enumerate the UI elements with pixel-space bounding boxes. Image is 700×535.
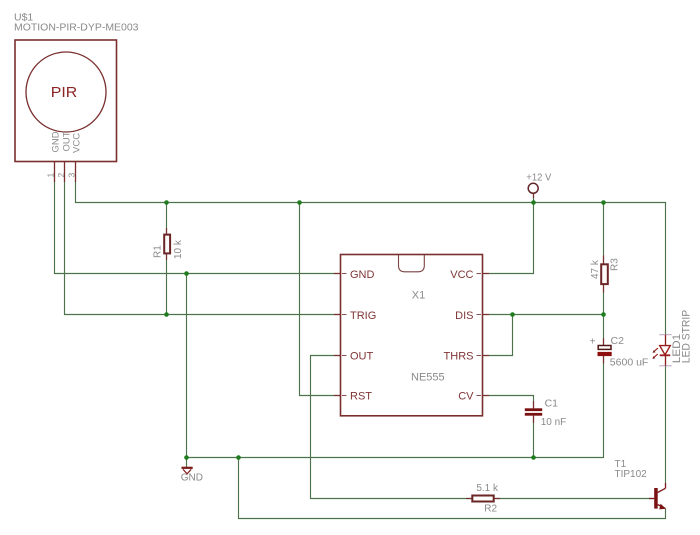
svg-text:5600 uF: 5600 uF (610, 356, 649, 368)
T1 emitter arrow (659, 504, 666, 510)
R3 top pin stub (603, 256, 605, 265)
wire DIS to R3 bottom (489, 314, 604, 316)
wire top +12V rail (76, 182, 666, 335)
wire OUT to R2 (311, 356, 472, 499)
wire R1 bottom (166, 254, 168, 314)
svg-text:TIP102: TIP102 (615, 469, 648, 480)
555 left pin stubs (334, 274, 341, 396)
X1 pin GND stub (334, 273, 341, 275)
node RST / rail (297, 200, 302, 205)
node junction dots (164, 200, 606, 460)
svg-text:5.1 k: 5.1 k (476, 483, 499, 494)
wire GND net vertical (186, 274, 188, 458)
R3 body (601, 264, 608, 284)
wire +12V stub (533, 193, 535, 203)
wire CV to C1 (489, 396, 534, 409)
LED1 anode pin tick (659, 334, 672, 336)
svg-text:+: + (590, 336, 596, 347)
R1 body (164, 235, 170, 254)
LED1 (652, 310, 692, 366)
T1 emitter slant (658, 505, 666, 509)
X1 pin OUT stub (334, 355, 341, 357)
C1 top plate (525, 408, 542, 411)
R2 right pin stub (495, 498, 500, 500)
svg-text:LED STRIP: LED STRIP (681, 310, 693, 364)
555 pin names (350, 269, 474, 403)
node ground / emitter branch (236, 455, 241, 460)
PIR pin names (51, 131, 83, 153)
svg-text:OUT: OUT (350, 351, 374, 363)
svg-text:3: 3 (67, 173, 77, 178)
svg-text:VCC: VCC (450, 269, 473, 281)
LED1 cathode stub (665, 355, 667, 366)
wire THRS to DIS (489, 315, 513, 356)
svg-text:X1: X1 (412, 290, 425, 302)
svg-text:VCC: VCC (72, 133, 83, 153)
svg-text:47 k: 47 k (590, 259, 601, 279)
svg-text:C1: C1 (545, 398, 559, 410)
IC X1 NE555 (341, 255, 483, 416)
R2 left pin stub (466, 498, 471, 500)
svg-text:C2: C2 (611, 335, 625, 347)
wire ground to emitter (239, 458, 666, 519)
X1 notch (399, 255, 425, 272)
+12V pin stub (533, 193, 535, 198)
svg-text:R2: R2 (484, 503, 497, 514)
node ground / GND symbol (184, 455, 189, 460)
node C1 bottom / ground (531, 455, 536, 460)
ground symbol GND (181, 468, 203, 484)
LED1 cathode bar (660, 354, 671, 356)
wire VCC (489, 203, 534, 274)
capacitor C1 (525, 398, 566, 428)
resistor R3 (590, 256, 621, 293)
node +12V / rail (531, 200, 536, 205)
LED1 cathode pin tick (659, 365, 672, 367)
X1 pin DIS stub (483, 314, 490, 316)
wire RST from rail (300, 203, 335, 396)
wire C2 bottom to ground wire (187, 356, 604, 458)
C2 top pin stub (603, 338, 605, 346)
X1 body (341, 255, 483, 416)
PIR pin 1 stub (54, 162, 56, 183)
LED1 emission arrow 2 (654, 354, 658, 357)
wire R2 to base (495, 498, 655, 500)
PIR pin numbers (46, 173, 77, 178)
C1 bottom pin stub (533, 416, 535, 423)
node GND net / 555 GND wire (184, 271, 189, 276)
wire PIR pin1 GND down (55, 182, 335, 274)
wire R1 top (166, 203, 168, 234)
PIR sensor U$1 (15, 40, 117, 162)
wire C1 bottom (533, 416, 535, 458)
svg-text:1: 1 (46, 173, 56, 178)
svg-text:CV: CV (458, 391, 474, 403)
PIR pin 3 stub (75, 162, 77, 183)
svg-text:GND: GND (51, 131, 62, 152)
svg-text:TRIG: TRIG (350, 310, 376, 322)
LED1 triangle (660, 346, 671, 355)
C2 positive plate (598, 346, 611, 350)
PIR pin 2 stub (64, 162, 66, 183)
svg-text:+12 V: +12 V (526, 171, 551, 183)
svg-text:GND: GND (181, 473, 203, 484)
svg-text:PIR: PIR (51, 84, 78, 101)
node R3 / rail (601, 200, 606, 205)
capacitor C2 (polarized) (590, 335, 649, 369)
X1 pin CV stub (483, 395, 490, 397)
supply +12V (526, 171, 551, 198)
R2 body (472, 496, 493, 502)
C1 top pin stub (533, 401, 535, 408)
wire (55, 182, 666, 519)
PIR body outline (15, 40, 117, 162)
ground V (183, 469, 191, 474)
wire R3 bottom to C2 (603, 285, 605, 345)
R3 bottom pin stub (603, 284, 605, 292)
T1 collector slant (658, 488, 666, 492)
node R1 bottom / TRIG (164, 312, 169, 317)
ground bar (182, 467, 193, 469)
wire GND symbol stub (186, 458, 188, 468)
wire PIR pin2 OUT down to TRIG (65, 182, 335, 315)
svg-text:2: 2 (56, 173, 66, 178)
wire R3 top (603, 203, 605, 264)
svg-text:10 k: 10 k (173, 239, 184, 259)
R1 bottom pin stub (166, 254, 168, 260)
C1 bottom plate (525, 413, 542, 416)
T1 base bar (654, 488, 658, 509)
R1 top pin stub (166, 228, 168, 234)
svg-text:RST: RST (350, 391, 372, 403)
node R3 bottom / C2 top (601, 312, 606, 317)
svg-text:DIS: DIS (455, 310, 473, 322)
node DIS-THRS (510, 312, 515, 317)
svg-text:THRS: THRS (444, 351, 474, 363)
C2 bottom pin stub (603, 356, 605, 363)
C2 negative plate (598, 352, 612, 356)
X1 pin THRS stub (483, 355, 490, 357)
X1 pin RST stub (334, 395, 341, 397)
node R1 top / rail (164, 200, 169, 205)
svg-text:MOTION-PIR-DYP-ME003: MOTION-PIR-DYP-ME003 (14, 22, 139, 34)
X1 pin VCC stub (483, 273, 490, 275)
resistor R1 (153, 228, 185, 260)
svg-text:10 nF: 10 nF (541, 417, 567, 428)
555 right pin stubs (483, 274, 490, 396)
LED1 anode stub (665, 335, 667, 346)
transistor T1 TIP102 (615, 459, 666, 510)
+12V supply circle (528, 183, 538, 193)
LED1 emission arrow 1 (654, 348, 658, 351)
svg-text:NE555: NE555 (411, 372, 445, 384)
svg-text:R1: R1 (153, 245, 164, 258)
T1 base pin stub (649, 498, 654, 500)
svg-text:GND: GND (350, 269, 375, 281)
PIR pin stubs (55, 162, 76, 183)
svg-text:R3: R3 (610, 258, 621, 271)
555 inner pin marks (342, 274, 481, 396)
PIR lens circle (26, 52, 106, 132)
resistor R2 (466, 483, 500, 514)
wire LED cathode to collector (665, 366, 667, 483)
X1 pin TRIG stub (334, 314, 341, 316)
T1 collector pin stub (665, 483, 667, 488)
